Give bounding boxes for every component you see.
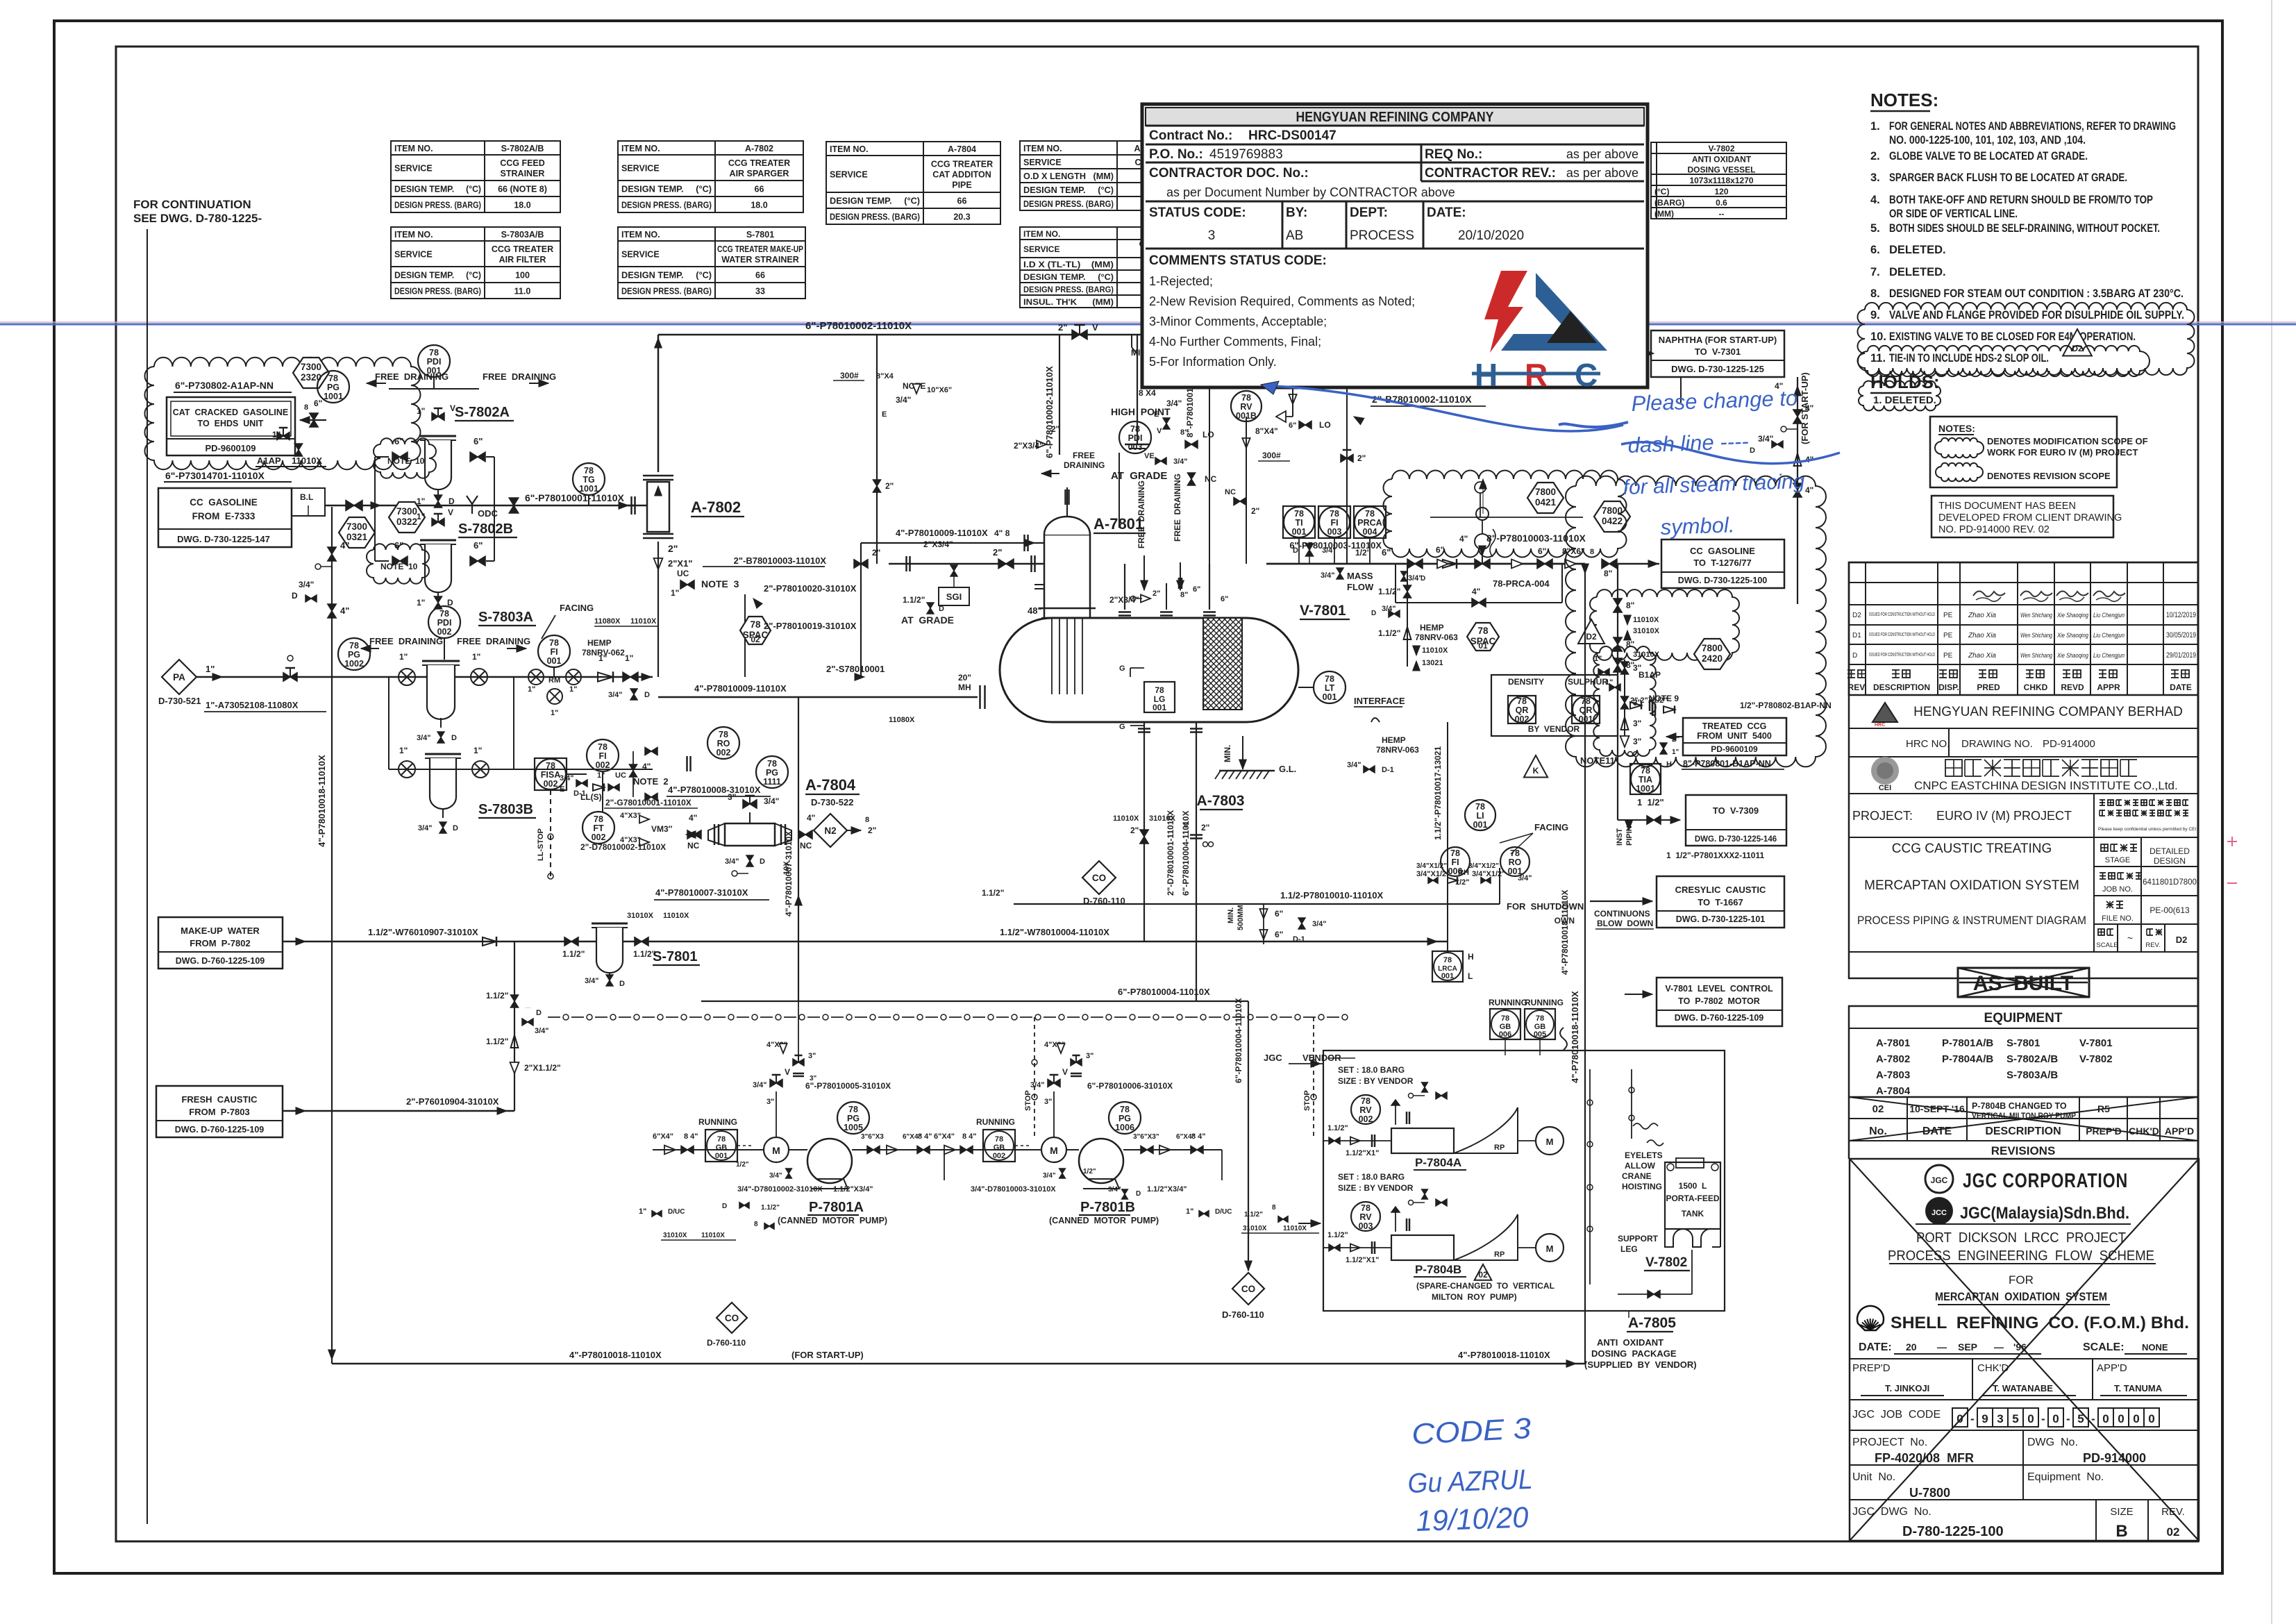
- svg-text:1": 1": [206, 664, 215, 674]
- svg-text:3/4": 3/4": [1173, 458, 1188, 466]
- svg-text:CONTINUONS: CONTINUONS: [1594, 909, 1650, 919]
- svg-text:DWG. D-760-1225-109: DWG. D-760-1225-109: [1675, 1013, 1764, 1023]
- svg-text:DESIGN PRESS. (BARG): DESIGN PRESS. (BARG): [1023, 285, 1114, 294]
- svg-text:PREP'D: PREP'D: [1852, 1362, 1891, 1374]
- svg-text:3/4": 3/4": [417, 734, 431, 742]
- svg-text:T. JINKOJI: T. JINKOJI: [1885, 1383, 1929, 1393]
- svg-text:NO. 000-1225-100, 101, 102, 10: NO. 000-1225-100, 101, 102, 103, AND ,10…: [1889, 134, 2086, 147]
- svg-text:SGI: SGI: [946, 592, 962, 602]
- svg-text:1.1/2"-P78010017-13021: 1.1/2"-P78010017-13021: [1433, 746, 1443, 840]
- svg-text:TANK: TANK: [1682, 1209, 1704, 1219]
- svg-text:4"-P78010018-11010X: 4"-P78010018-11010X: [569, 1350, 662, 1360]
- svg-text:NO. PD-914000 REV. 02: NO. PD-914000 REV. 02: [1938, 524, 2050, 535]
- svg-text:CCG TREATER: CCG TREATER: [492, 244, 553, 254]
- svg-text:1006: 1006: [1115, 1123, 1134, 1132]
- svg-text:66: 66: [957, 196, 967, 206]
- svg-text:MAKE-UP WATER: MAKE-UP WATER: [181, 926, 260, 936]
- svg-text:(FOR START-UP): (FOR START-UP): [791, 1350, 864, 1360]
- svg-text:Equipment No.: Equipment No.: [2027, 1471, 2104, 1483]
- svg-text:1001: 1001: [324, 392, 343, 401]
- svg-text:1.1/2": 1.1/2": [562, 949, 585, 959]
- svg-text:001: 001: [1292, 527, 1307, 537]
- svg-text:3.: 3.: [1870, 171, 1880, 184]
- svg-text:PORTA-FEED: PORTA-FEED: [1666, 1194, 1719, 1203]
- svg-text:6"-P78010004-11010X: 6"-P78010004-11010X: [1118, 987, 1210, 997]
- svg-text:ITEM NO.: ITEM NO.: [1023, 229, 1060, 239]
- svg-text:Xie Shaoqing: Xie Shaoqing: [2056, 632, 2088, 639]
- svg-text:1.1/2": 1.1/2": [982, 888, 1004, 898]
- svg-text:DATE: DATE: [2170, 683, 2192, 692]
- svg-text:S-7802A/B: S-7802A/B: [2006, 1053, 2058, 1065]
- svg-text:4"-P78010007-31010X: 4"-P78010007-31010X: [784, 831, 794, 916]
- svg-text:TO EHDS UNIT: TO EHDS UNIT: [198, 419, 264, 428]
- svg-text:TREATED CCG: TREATED CCG: [1702, 721, 1767, 731]
- svg-text:20": 20": [958, 673, 971, 683]
- svg-text:Wen Shichang: Wen Shichang: [2020, 652, 2052, 659]
- svg-text:78: 78: [717, 1135, 726, 1144]
- svg-text:THIS DOCUMENT HAS BEEN: THIS DOCUMENT HAS BEEN: [1938, 501, 2076, 512]
- svg-text:DWG. D-760-1225-109: DWG. D-760-1225-109: [175, 1125, 265, 1135]
- svg-text:ANTI OXIDANT: ANTI OXIDANT: [1692, 155, 1752, 165]
- svg-text:S-7802A/B: S-7802A/B: [501, 144, 544, 153]
- svg-text:1": 1": [639, 1207, 646, 1216]
- svg-text:4"-P78010018-11010X: 4"-P78010018-11010X: [317, 755, 327, 847]
- svg-text:DRAWING NO.: DRAWING NO.: [1961, 738, 2033, 750]
- svg-text:B1AP: B1AP: [1639, 670, 1661, 680]
- svg-text:D: D: [722, 1203, 727, 1210]
- svg-text:SULPHUR: SULPHUR: [1568, 677, 1608, 687]
- svg-text:3/4": 3/4": [1321, 571, 1335, 580]
- svg-text:48": 48": [1028, 605, 1042, 616]
- svg-text:SERVICE: SERVICE: [394, 164, 433, 174]
- svg-text:MH: MH: [958, 683, 971, 692]
- svg-text:1": 1": [1186, 1207, 1193, 1216]
- svg-text:78: 78: [546, 761, 555, 771]
- svg-text:0: 0: [2027, 1412, 2034, 1425]
- svg-text:1": 1": [417, 406, 425, 416]
- svg-text:3/4": 3/4": [608, 691, 623, 699]
- svg-text:4": 4": [1805, 485, 1813, 495]
- svg-text:78: 78: [1475, 802, 1485, 812]
- svg-text:U-7800: U-7800: [1909, 1486, 1950, 1500]
- svg-text:001: 001: [1153, 703, 1166, 712]
- svg-text:1.1/2": 1.1/2": [1378, 628, 1400, 638]
- svg-text:3/4"X1/2": 3/4"X1/2": [1416, 862, 1447, 870]
- svg-text:4" 8: 4" 8: [994, 528, 1010, 538]
- svg-text:D: D: [1421, 575, 1425, 583]
- svg-text:CCG TREATER: CCG TREATER: [931, 160, 993, 169]
- svg-text:OR SIDE OF VERTICAL LINE.: OR SIDE OF VERTICAL LINE.: [1889, 208, 2018, 220]
- svg-text:2": 2": [1058, 322, 1067, 333]
- svg-text:8"X4": 8"X4": [1255, 426, 1278, 436]
- svg-text:G: G: [1119, 664, 1125, 673]
- svg-text:NC: NC: [1225, 488, 1236, 496]
- svg-text:(BARG): (BARG): [1654, 198, 1684, 208]
- svg-text:002: 002: [993, 1152, 1005, 1160]
- svg-text:ITEM NO.: ITEM NO.: [394, 230, 433, 240]
- svg-text:AIR SPARGER: AIR SPARGER: [730, 169, 789, 178]
- svg-text:Liu Chengjun: Liu Chengjun: [2093, 612, 2125, 619]
- svg-text:K: K: [1533, 766, 1539, 776]
- svg-text:1": 1": [272, 430, 280, 440]
- svg-text:HENGYUAN REFINING COMPANY: HENGYUAN REFINING COMPANY: [1296, 110, 1495, 125]
- svg-text:FREE DRAINING: FREE DRAINING: [457, 636, 530, 646]
- svg-text:DESIGN TEMP. (°C): DESIGN TEMP. (°C): [621, 185, 712, 194]
- svg-text:INST: INST: [1616, 828, 1624, 846]
- svg-text:7300: 7300: [396, 506, 417, 517]
- svg-text:3": 3": [1633, 719, 1641, 728]
- svg-text:SERVICE: SERVICE: [830, 170, 868, 180]
- svg-text:6"-P78010002-11010X: 6"-P78010002-11010X: [805, 320, 912, 332]
- svg-text:D-1: D-1: [1382, 766, 1394, 774]
- svg-text:6"-P78010001-11010X: 6"-P78010001-11010X: [525, 492, 625, 503]
- svg-text:3/4": 3/4": [1518, 874, 1532, 882]
- svg-text:D: D: [644, 691, 650, 699]
- svg-text:RM: RM: [548, 676, 560, 685]
- svg-text:A-7804: A-7804: [1876, 1085, 1911, 1097]
- svg-text:SEE DWG. D-780-1225-: SEE DWG. D-780-1225-: [133, 212, 262, 225]
- svg-text:2"-S78010001: 2"-S78010001: [826, 664, 885, 674]
- svg-text:4": 4": [1805, 403, 1813, 413]
- svg-text:STATUS CODE:: STATUS CODE:: [1149, 206, 1246, 220]
- svg-text:EXISTING VALVE TO BE CLOSED FO: EXISTING VALVE TO BE CLOSED FOR E4M OPER…: [1889, 330, 2136, 343]
- svg-text:2": 2": [1153, 589, 1160, 598]
- svg-text:01: 01: [1478, 641, 1488, 651]
- svg-text:ANTI OXIDANT: ANTI OXIDANT: [1597, 1337, 1664, 1348]
- svg-text:JGC DWG No.: JGC DWG No.: [1852, 1506, 1932, 1518]
- svg-text:3/4"-D78010003-31010X: 3/4"-D78010003-31010X: [971, 1185, 1056, 1194]
- svg-text:1.1/2": 1.1/2": [1244, 1211, 1263, 1219]
- svg-text:ISSUED FOR CONSTRUCTION WITHOU: ISSUED FOR CONSTRUCTION WITHOUT HOLD: [1869, 612, 1935, 617]
- svg-text:A-7804: A-7804: [948, 144, 976, 154]
- svg-text:Wen Shichang: Wen Shichang: [2020, 612, 2052, 619]
- svg-text:8": 8": [1180, 591, 1188, 599]
- svg-text:S-7803A: S-7803A: [478, 610, 533, 625]
- svg-text:1.1/2": 1.1/2": [761, 1204, 780, 1212]
- svg-text:(CANNED MOTOR PUMP): (CANNED MOTOR PUMP): [778, 1216, 887, 1225]
- svg-text:78: 78: [328, 374, 338, 383]
- svg-text:M: M: [772, 1145, 780, 1156]
- svg-text:SERVICE: SERVICE: [1023, 244, 1059, 254]
- svg-text:D: D: [1371, 610, 1376, 617]
- svg-text:D: D: [619, 980, 625, 988]
- svg-text:1": 1": [1594, 655, 1602, 663]
- svg-text:1.1/2": 1.1/2": [486, 991, 508, 1001]
- svg-text:78: 78: [848, 1105, 858, 1114]
- svg-text:0321: 0321: [346, 532, 368, 542]
- svg-text:6"X4": 6"X4": [653, 1132, 673, 1141]
- svg-text:V: V: [1062, 1067, 1068, 1077]
- svg-text:DESIGN PRESS. (BARG): DESIGN PRESS. (BARG): [830, 212, 920, 222]
- svg-text:PDI: PDI: [427, 357, 442, 367]
- svg-text:0: 0: [2102, 1412, 2109, 1425]
- svg-text:VALVE AND FLANGE PROVIDED FOR: VALVE AND FLANGE PROVIDED FOR DISULPHIDE…: [1889, 309, 2184, 321]
- svg-text:1": 1": [528, 685, 535, 694]
- svg-text:NOTES:: NOTES:: [1938, 423, 1975, 434]
- svg-text:S-7801: S-7801: [653, 949, 698, 964]
- svg-text:CEI: CEI: [1879, 784, 1891, 792]
- svg-text:V: V: [448, 508, 453, 517]
- svg-text:Gu AZRUL: Gu AZRUL: [1407, 1464, 1533, 1499]
- svg-text:3/4": 3/4": [535, 1027, 549, 1035]
- svg-text:P-7804A/B: P-7804A/B: [1942, 1053, 1993, 1065]
- svg-text:D2: D2: [1586, 632, 1597, 642]
- svg-text:-: -: [2091, 1412, 2095, 1425]
- svg-text:S-7801: S-7801: [2006, 1037, 2040, 1049]
- svg-text:002: 002: [437, 627, 452, 637]
- svg-text:7.: 7.: [1870, 266, 1880, 278]
- svg-text:1.: 1.: [1870, 120, 1880, 133]
- svg-text:66: 66: [755, 271, 765, 281]
- svg-text:003: 003: [1128, 442, 1143, 452]
- svg-text:WATER STRAINER: WATER STRAINER: [721, 255, 799, 265]
- svg-text:A-7802: A-7802: [745, 144, 773, 153]
- svg-text:GLOBE VALVE TO BE LOCATED AT G: GLOBE VALVE TO BE LOCATED AT GRADE.: [1889, 150, 2088, 162]
- svg-text:APP'D: APP'D: [2097, 1362, 2127, 1374]
- svg-text:4": 4": [1472, 587, 1480, 596]
- svg-text:3": 3": [728, 792, 736, 802]
- svg-text:EQUIPMENT: EQUIPMENT: [1984, 1011, 2063, 1026]
- svg-text:D: D: [292, 591, 298, 601]
- svg-text:RUNNING: RUNNING: [1525, 998, 1564, 1007]
- svg-text:3: 3: [1997, 1412, 2003, 1425]
- svg-text:4": 4": [689, 813, 697, 823]
- svg-text:1001: 1001: [579, 484, 598, 494]
- svg-text:20.3: 20.3: [953, 212, 970, 222]
- svg-text:6"-P78010004-11010X: 6"-P78010004-11010X: [1234, 998, 1243, 1083]
- svg-text:REVISIONS: REVISIONS: [1991, 1144, 2056, 1157]
- svg-text:1": 1": [551, 709, 558, 717]
- svg-text:I.D X (TL-TL) (MM): I.D X (TL-TL) (MM): [1023, 260, 1114, 269]
- svg-text:D/UC: D/UC: [668, 1208, 685, 1216]
- svg-text:5: 5: [2012, 1412, 2018, 1425]
- svg-text:DOSING PACKAGE: DOSING PACKAGE: [1591, 1348, 1677, 1359]
- svg-text:02: 02: [751, 635, 760, 644]
- svg-text:A-7802: A-7802: [1876, 1053, 1910, 1065]
- svg-text:FILE NO.: FILE NO.: [2102, 914, 2134, 923]
- svg-text:P.O. No.:: P.O. No.:: [1149, 147, 1203, 162]
- svg-text:500MM: 500MM: [1237, 905, 1245, 930]
- svg-text:FREE DRAINING: FREE DRAINING: [375, 371, 449, 382]
- svg-text:PE: PE: [1943, 612, 1953, 619]
- svg-text:V: V: [1157, 427, 1162, 435]
- svg-text:DELETED.: DELETED.: [1889, 244, 1946, 256]
- svg-text:JCC: JCC: [1932, 1209, 1947, 1217]
- svg-text:1.1/2"X1": 1.1/2"X1": [1346, 1149, 1379, 1157]
- svg-text:D-760-110: D-760-110: [707, 1338, 746, 1348]
- svg-text:REV.: REV.: [2161, 1506, 2185, 1518]
- svg-text:Unit No.: Unit No.: [1852, 1471, 1895, 1483]
- svg-text:FREE DRAINING: FREE DRAINING: [1173, 474, 1182, 542]
- svg-text:RUNNING: RUNNING: [1489, 998, 1527, 1007]
- svg-text:PROJECT:: PROJECT:: [1852, 809, 1913, 823]
- svg-text:8 4": 8 4": [962, 1132, 977, 1141]
- svg-text:30/05/2019: 30/05/2019: [2166, 631, 2196, 639]
- svg-text:3": 3": [766, 1098, 774, 1106]
- svg-text:SERVICE: SERVICE: [394, 250, 433, 260]
- svg-text:STRAINER: STRAINER: [501, 169, 545, 178]
- svg-text:MILTON ROY PUMP): MILTON ROY PUMP): [1432, 1292, 1517, 1302]
- svg-text:1": 1": [1672, 748, 1679, 756]
- svg-text:5-For Information Only.: 5-For Information Only.: [1149, 355, 1277, 369]
- svg-text:78NRV-063: 78NRV-063: [1415, 633, 1458, 642]
- svg-text:1.1/2"-W78010004-11010X: 1.1/2"-W78010004-11010X: [1000, 927, 1109, 937]
- svg-text:11.0: 11.0: [514, 287, 531, 296]
- svg-text:CCG FEED: CCG FEED: [500, 158, 545, 168]
- svg-text:3"6"X3": 3"6"X3": [1133, 1133, 1159, 1141]
- svg-text:1": 1": [671, 588, 679, 598]
- svg-text:11080X: 11080X: [594, 617, 621, 626]
- svg-text:A-7805: A-7805: [1628, 1315, 1676, 1331]
- svg-text:~: ~: [2127, 932, 2133, 944]
- svg-text:DWG. D-730-1225-147: DWG. D-730-1225-147: [177, 534, 270, 544]
- svg-text:P-7801A/B: P-7801A/B: [1942, 1037, 1993, 1049]
- svg-text:1.1/2": 1.1/2": [903, 595, 925, 605]
- svg-text:VE: VE: [1144, 452, 1155, 460]
- svg-text:REV.: REV.: [1848, 683, 1867, 692]
- svg-text:S-7803A/B: S-7803A/B: [501, 230, 544, 240]
- svg-text:1111: 1111: [763, 777, 781, 787]
- svg-text:4": 4": [340, 540, 349, 551]
- svg-text:2": 2": [872, 548, 880, 558]
- svg-text:6": 6": [314, 399, 322, 408]
- svg-text:FP-4020/08 MFR: FP-4020/08 MFR: [1875, 1451, 1974, 1465]
- svg-text:NOTE 10: NOTE 10: [387, 456, 425, 466]
- svg-text:001: 001: [1441, 972, 1454, 980]
- svg-text:78: 78: [1510, 848, 1520, 858]
- svg-text:DESIGN TEMP. (°C): DESIGN TEMP. (°C): [621, 271, 712, 281]
- svg-text:SIZE : BY VENDOR: SIZE : BY VENDOR: [1338, 1076, 1414, 1086]
- svg-text:N2: N2: [824, 826, 836, 836]
- svg-text:2.: 2.: [1870, 150, 1880, 162]
- svg-text:V: V: [785, 1067, 790, 1077]
- svg-text:ISSUED FOR CONSTRUCTION WITHOU: ISSUED FOR CONSTRUCTION WITHOUT HOLD: [1869, 653, 1935, 658]
- svg-text:6": 6": [474, 436, 483, 446]
- svg-text:78: 78: [1361, 1096, 1371, 1106]
- svg-text:STOP: STOP: [1024, 1090, 1032, 1111]
- svg-text:78: 78: [584, 466, 594, 476]
- svg-text:D-730-522: D-730-522: [811, 797, 853, 807]
- svg-text:NOTE 10: NOTE 10: [380, 562, 418, 571]
- svg-text:A-7802: A-7802: [691, 499, 741, 516]
- svg-text:CHKD: CHKD: [2024, 683, 2048, 692]
- svg-text:0.6: 0.6: [1716, 198, 1727, 208]
- svg-text:6"-P730802-A1AP-NN: 6"-P730802-A1AP-NN: [175, 380, 274, 391]
- svg-text:H: H: [1468, 952, 1474, 962]
- svg-text:CO: CO: [1092, 873, 1106, 883]
- svg-text:0: 0: [2118, 1412, 2124, 1425]
- svg-text:001: 001: [547, 656, 562, 666]
- svg-text:FI: FI: [550, 647, 558, 657]
- svg-text:FOR SHUTDOWN: FOR SHUTDOWN: [1507, 901, 1584, 912]
- svg-text:CCG TREATER MAKE-UP: CCG TREATER MAKE-UP: [717, 244, 803, 254]
- svg-text:NOTE 3: NOTE 3: [701, 578, 739, 589]
- svg-text:3/4"X1/2": 3/4"X1/2": [1416, 870, 1450, 878]
- svg-text:6": 6": [1193, 585, 1200, 594]
- svg-text:WORK FOR EURO IV (M) PROJECT: WORK FOR EURO IV (M) PROJECT: [1987, 447, 2138, 458]
- svg-text:DWG. D-730-1225-146: DWG. D-730-1225-146: [1695, 835, 1777, 844]
- svg-text:0: 0: [2052, 1412, 2059, 1425]
- svg-text:TO T-1276/77: TO T-1276/77: [1693, 558, 1752, 568]
- svg-text:0422: 0422: [1602, 516, 1623, 526]
- svg-text:1": 1": [399, 746, 408, 755]
- svg-text:DESIGN PRESS. (BARG): DESIGN PRESS. (BARG): [394, 201, 481, 210]
- svg-text:2": 2": [1357, 453, 1366, 463]
- svg-text:CODE 3: CODE 3: [1411, 1412, 1532, 1450]
- svg-text:2"X3/4": 2"X3/4": [1014, 441, 1044, 451]
- svg-text:003: 003: [1359, 1221, 1373, 1231]
- svg-text:6"-P78010004-11010X: 6"-P78010004-11010X: [1181, 811, 1191, 896]
- svg-text:FRESH CAUSTIC: FRESH CAUSTIC: [181, 1094, 258, 1105]
- svg-text:1": 1": [569, 685, 577, 694]
- svg-text:18.0: 18.0: [751, 201, 767, 210]
- svg-text:A1AP: A1AP: [257, 455, 281, 466]
- svg-text:A-7803: A-7803: [1197, 793, 1245, 809]
- svg-text:V: V: [450, 403, 455, 413]
- svg-text:GB: GB: [716, 1144, 728, 1152]
- svg-text:78: 78: [1130, 424, 1140, 434]
- svg-text:7800: 7800: [1702, 643, 1723, 653]
- svg-text:SUPPORT: SUPPORT: [1618, 1234, 1659, 1244]
- svg-text:4": 4": [340, 605, 349, 616]
- svg-text:PROCESS ENGINEERING FLOW SC: PROCESS ENGINEERING FLOW SCHEME: [1888, 1248, 2154, 1264]
- svg-text:78: 78: [1120, 1105, 1130, 1114]
- svg-text:TI: TI: [1295, 518, 1302, 528]
- svg-text:6": 6": [1289, 421, 1296, 430]
- svg-text:symbol.: symbol.: [1660, 512, 1735, 539]
- svg-text:-: -: [1970, 1412, 1975, 1425]
- svg-text:LL-STOP: LL-STOP: [537, 828, 545, 861]
- svg-text:QR: QR: [1516, 705, 1529, 715]
- svg-text:005: 005: [1534, 1030, 1546, 1039]
- svg-text:SHELL REFINING CO. (F.O.M.): SHELL REFINING CO. (F.O.M.) Bhd.: [1891, 1314, 2189, 1332]
- svg-text:002: 002: [596, 760, 610, 770]
- svg-text:V-7802: V-7802: [1708, 144, 1734, 153]
- svg-text:PD-914000: PD-914000: [2083, 1451, 2146, 1465]
- svg-text:P-7804B CHANGED TO: P-7804B CHANGED TO: [1972, 1101, 2067, 1111]
- svg-text:Zhao Xia: Zhao Xia: [1968, 632, 1996, 639]
- svg-text:FROM UNIT 5400: FROM UNIT 5400: [1697, 731, 1772, 741]
- svg-text:RV: RV: [1359, 1212, 1372, 1222]
- svg-text:78: 78: [1361, 1203, 1371, 1213]
- svg-text:2420: 2420: [1702, 653, 1723, 664]
- svg-text:2": 2": [668, 543, 678, 554]
- svg-text:GB: GB: [994, 1144, 1005, 1152]
- svg-text:-: -: [2066, 1412, 2070, 1425]
- svg-text:A-7801: A-7801: [1876, 1037, 1910, 1049]
- svg-text:11010X: 11010X: [292, 455, 322, 466]
- svg-text:DRAINING: DRAINING: [1064, 460, 1105, 470]
- svg-text:3/4": 3/4": [764, 796, 779, 806]
- svg-text:78: 78: [995, 1135, 1003, 1144]
- svg-text:DWG. D-730-1225-125: DWG. D-730-1225-125: [1671, 364, 1764, 374]
- svg-text:S-7801: S-7801: [746, 230, 774, 240]
- svg-text:78: 78: [1536, 1014, 1544, 1023]
- svg-text:PD-9600109: PD-9600109: [206, 443, 256, 453]
- svg-text:ISSUED FOR CONSTRUCTION WITHOU: ISSUED FOR CONSTRUCTION WITHOUT HOLD: [1869, 633, 1935, 637]
- svg-text:001: 001: [715, 1152, 728, 1160]
- svg-text:11010X: 11010X: [1283, 1225, 1307, 1232]
- svg-text:1"-A73052108-11080X: 1"-A73052108-11080X: [206, 700, 299, 710]
- svg-text:RP: RP: [1494, 1250, 1505, 1259]
- svg-text:TO T-1667: TO T-1667: [1698, 897, 1743, 907]
- svg-text:P-7801B: P-7801B: [1080, 1200, 1135, 1215]
- svg-text:ITEM NO.: ITEM NO.: [621, 230, 660, 240]
- svg-text:2"-P78010020-31010X: 2"-P78010020-31010X: [764, 583, 857, 594]
- svg-text:CO: CO: [1241, 1284, 1255, 1294]
- svg-text:006: 006: [1499, 1030, 1511, 1039]
- svg-text:78: 78: [1450, 848, 1460, 858]
